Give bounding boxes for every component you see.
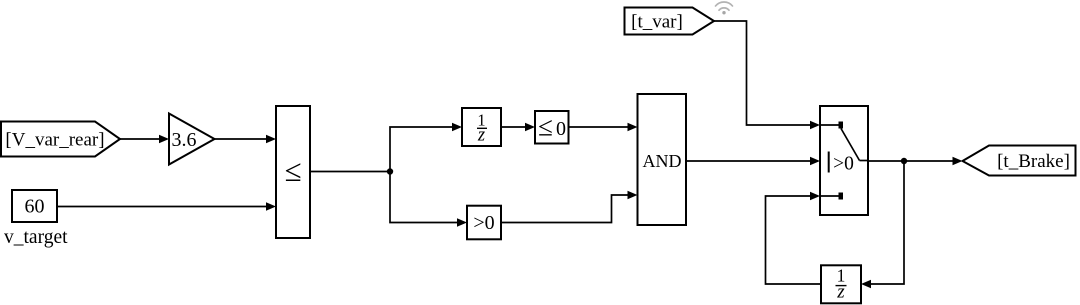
svg-text:[t_var]: [t_var] bbox=[631, 12, 683, 33]
wire <=0 to AND top input bbox=[569, 123, 638, 131]
svg-text:[V_var_rear]: [V_var_rear] bbox=[5, 130, 104, 151]
wire V_var_rear to gain bbox=[120, 135, 169, 143]
svg-text:>0: >0 bbox=[833, 154, 854, 175]
compare to zero block <=0 bbox=[535, 111, 569, 144]
wire AND output to switch middle input bbox=[686, 157, 820, 165]
svg-text:≤: ≤ bbox=[284, 153, 301, 188]
junction node output bbox=[901, 158, 907, 164]
unit delay block 1/z top bbox=[462, 108, 501, 146]
wire switch output to t_Brake bbox=[868, 157, 963, 165]
wire 60 to relational bbox=[57, 202, 276, 210]
wire unit delay to compare <=0 bbox=[501, 123, 535, 131]
junction node bbox=[387, 168, 393, 174]
compare block >0 bbox=[467, 206, 501, 240]
constant block 60 bbox=[12, 190, 57, 222]
svg-text:0: 0 bbox=[556, 118, 566, 140]
from tag [t_var] bbox=[625, 8, 715, 35]
logical operator block AND bbox=[638, 94, 687, 225]
switch bottom port stub bbox=[820, 195, 839, 197]
svg-text:z: z bbox=[477, 126, 485, 146]
switch threshold mark bbox=[828, 152, 830, 173]
wire relational output to junction bbox=[310, 171, 390, 173]
svg-text:[t_Brake]: [t_Brake] bbox=[997, 151, 1070, 172]
wire unit delay bottom to switch bottom input bbox=[766, 192, 822, 284]
gain block 3.6 bbox=[169, 114, 215, 165]
unit delay block 1/z bottom bbox=[821, 265, 861, 303]
svg-text:z: z bbox=[836, 282, 845, 303]
wire gain to relational bbox=[215, 135, 277, 143]
wire feedback down to unit delay bottom bbox=[861, 161, 904, 288]
relational operator block <= bbox=[276, 106, 310, 238]
wireless icon bbox=[716, 2, 733, 14]
wire junction up to unit delay bbox=[390, 123, 462, 172]
wire >0 to AND bottom input bbox=[501, 191, 638, 223]
wire junction down to >0 bbox=[390, 172, 467, 227]
svg-text:≤: ≤ bbox=[538, 112, 553, 142]
svg-text:60: 60 bbox=[25, 196, 45, 218]
from tag [V_var_rear] bbox=[1, 122, 120, 157]
svg-text:3.6: 3.6 bbox=[172, 129, 197, 151]
svg-text:AND: AND bbox=[643, 151, 682, 171]
switch block bbox=[820, 106, 868, 215]
switch lever bbox=[841, 129, 860, 161]
svg-text:>0: >0 bbox=[473, 212, 494, 234]
goto tag [t_Brake] bbox=[963, 146, 1076, 176]
switch top port stub bbox=[820, 124, 839, 126]
wire t_var to switch top input bbox=[714, 21, 820, 129]
svg-text:v_target: v_target bbox=[4, 227, 68, 248]
